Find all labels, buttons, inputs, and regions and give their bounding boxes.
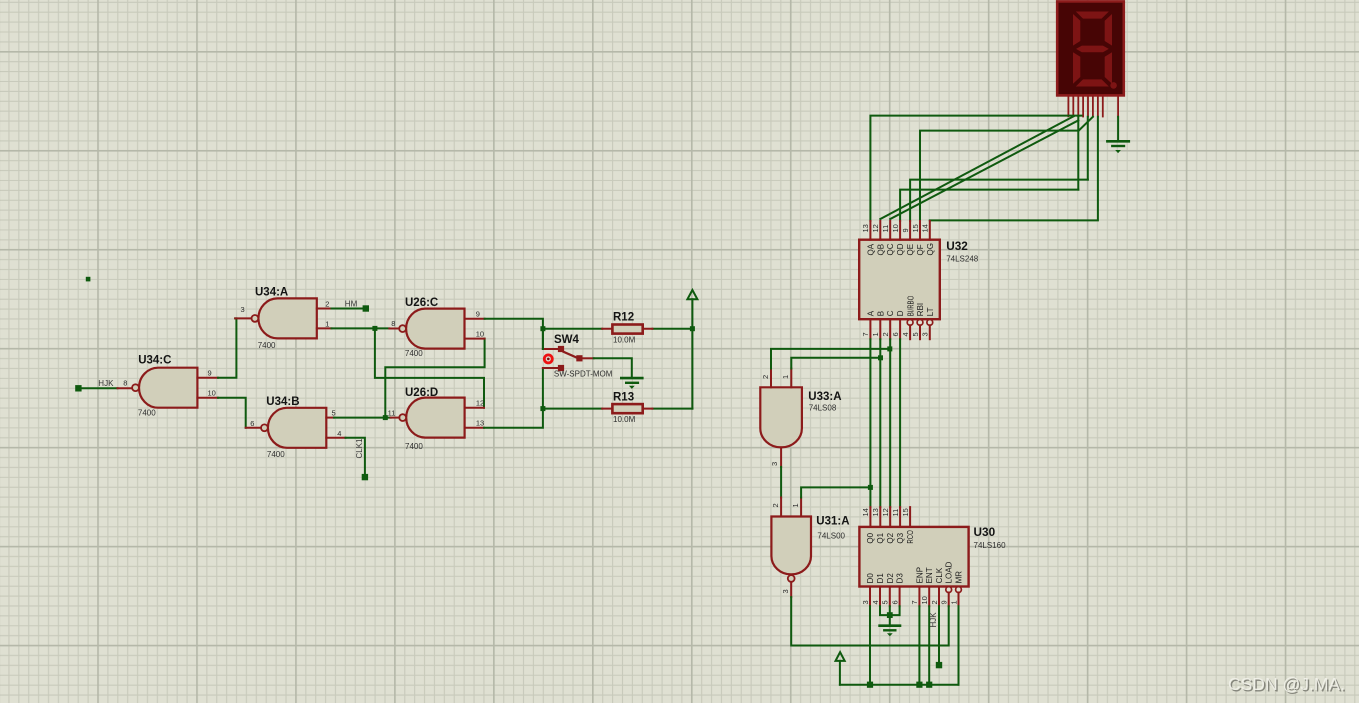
svg-text:Q1: Q1 <box>876 532 885 543</box>
power terminal arrow <box>687 290 697 299</box>
svg-text:10: 10 <box>208 389 216 398</box>
power terminal arrow bottom <box>836 652 845 661</box>
U32 top pin numbers 13 12 11 10 9 15 14 <box>861 224 929 232</box>
svg-text:A: A <box>866 310 875 316</box>
wire SW4 throw B vertical <box>542 368 544 409</box>
svg-text:14: 14 <box>921 224 930 232</box>
svg-text:1: 1 <box>871 332 880 336</box>
terminal HJK <box>75 385 81 391</box>
svg-text:R12: R12 <box>613 312 634 324</box>
wire D1 D2 D3 to ground <box>880 606 900 625</box>
wire U32 B to U30 Q1 <box>879 339 881 507</box>
U31:A labels <box>816 516 849 541</box>
display segment a <box>1076 12 1109 19</box>
svg-text:9: 9 <box>901 228 910 232</box>
svg-text:U34:A: U34:A <box>255 287 288 299</box>
svg-text:3: 3 <box>241 305 245 314</box>
wire U26:D pin13 to R13 node <box>484 409 543 428</box>
svg-text:3: 3 <box>861 600 870 604</box>
svg-text:U30: U30 <box>974 525 996 539</box>
U32 bottom pin numbers 7 1 2 6 4 5 3 <box>861 332 929 336</box>
svg-text:1: 1 <box>781 375 790 379</box>
junction dot <box>868 485 873 490</box>
SW4 actuator red circle <box>544 355 552 363</box>
svg-text:11: 11 <box>388 409 396 418</box>
svg-text:ENT: ENT <box>925 567 934 583</box>
7-segment display DS (body) <box>1057 1 1124 95</box>
svg-text:3: 3 <box>781 589 790 593</box>
svg-text:5: 5 <box>332 409 336 418</box>
IC U30 74LS160 body <box>859 527 968 587</box>
wire U31:A output to LOAD <box>791 597 949 645</box>
wire U34:A pin2 to HM terminal <box>332 308 364 310</box>
wire ENT to power rail <box>928 606 930 685</box>
wire R13 row <box>543 408 693 410</box>
U26:C pin stubs <box>389 319 484 339</box>
svg-text:QC: QC <box>886 243 895 255</box>
IC U32 74LS248 body <box>859 240 940 320</box>
svg-text:6: 6 <box>250 419 254 428</box>
svg-text:10: 10 <box>920 596 929 604</box>
svg-text:7400: 7400 <box>267 450 285 459</box>
wire QC diagonal to segment c column <box>890 120 1078 219</box>
svg-text:Q3: Q3 <box>896 532 905 543</box>
svg-text:6: 6 <box>891 332 900 336</box>
svg-text:QD: QD <box>896 243 905 255</box>
NAND gate U34:C body <box>132 368 197 408</box>
NAND gate U31:A body <box>771 517 811 582</box>
svg-text:2: 2 <box>881 332 890 336</box>
wire U34:B pin5 to U26:D output <box>334 417 391 419</box>
svg-text:15: 15 <box>901 508 910 516</box>
svg-text:12: 12 <box>871 224 880 232</box>
junction dot <box>916 682 922 688</box>
svg-text:B: B <box>876 311 885 316</box>
svg-text:2: 2 <box>325 300 329 309</box>
U30 labels <box>974 525 1007 550</box>
wire U33:A pin2 to U32 C column <box>771 349 890 369</box>
wire U31:A pin1 to Q0 column <box>801 487 870 497</box>
wire HJK terminal to U34:C output <box>81 387 118 389</box>
svg-text:7400: 7400 <box>138 408 156 417</box>
svg-text:CSDN @J.MA.: CSDN @J.MA. <box>1228 674 1345 694</box>
svg-text:5: 5 <box>881 600 890 604</box>
svg-text:74LS248: 74LS248 <box>946 254 979 263</box>
svg-text:74LS160: 74LS160 <box>974 541 1007 550</box>
svg-text:2: 2 <box>761 375 770 379</box>
svg-text:D1: D1 <box>876 573 885 584</box>
svg-text:9: 9 <box>208 369 212 378</box>
junction dot R12 node <box>540 326 545 331</box>
svg-text:LT: LT <box>926 307 935 316</box>
svg-text:13: 13 <box>476 419 484 428</box>
wire U34:B pin4 to CLK1 terminal <box>346 438 365 474</box>
NAND gate U34:B body <box>261 408 326 448</box>
svg-text:7400: 7400 <box>405 349 423 358</box>
svg-text:1: 1 <box>949 600 958 604</box>
wire SW4 pole to ground <box>594 358 632 377</box>
svg-text:HJK: HJK <box>98 379 114 388</box>
wire diagonal from display pin f <box>1079 117 1093 131</box>
junction dot power node <box>690 326 695 331</box>
wire vertical display pin3 column <box>1077 116 1079 189</box>
gate pin numbers <box>123 300 484 438</box>
lone marker dot <box>86 277 91 282</box>
svg-text:D0: D0 <box>866 573 875 584</box>
svg-text:QB: QB <box>876 244 885 256</box>
labels left section <box>98 287 635 459</box>
wire QB diagonal to segment b <box>880 116 1073 219</box>
svg-text:14: 14 <box>861 508 870 516</box>
svg-text:74LS00: 74LS00 <box>817 532 845 541</box>
junction dot <box>878 355 883 360</box>
svg-text:6: 6 <box>890 600 899 604</box>
svg-text:13: 13 <box>861 224 870 232</box>
svg-text:Q2: Q2 <box>886 532 895 543</box>
display segment e <box>1073 52 1080 84</box>
svg-text:U34:B: U34:B <box>266 396 299 408</box>
svg-text:74LS08: 74LS08 <box>809 403 837 412</box>
svg-text:10: 10 <box>891 224 900 232</box>
AND gate U33:A body <box>760 387 802 447</box>
NAND gate U26:C body <box>399 309 464 349</box>
resistor R13 <box>602 404 652 413</box>
display segment b <box>1105 14 1112 46</box>
ground under SW4 <box>621 378 642 388</box>
junction dot <box>926 682 932 688</box>
svg-text:9: 9 <box>940 600 949 604</box>
wire U26:C pin10 zigzag to pin5 row <box>385 339 484 418</box>
svg-text:ENP: ENP <box>915 567 924 583</box>
svg-text:8: 8 <box>123 379 127 388</box>
svg-text:U26:D: U26:D <box>405 387 438 399</box>
svg-text:4: 4 <box>901 332 910 336</box>
wire from junction down to U26:D pin12 <box>375 328 484 407</box>
switch SW4 <box>543 346 594 371</box>
svg-text:QF: QF <box>916 244 925 255</box>
terminal CLK1 <box>362 474 368 480</box>
svg-text:U33:A: U33:A <box>808 391 841 403</box>
svg-text:SW4: SW4 <box>554 334 580 346</box>
svg-text:QE: QE <box>906 244 915 256</box>
wire U33:A output to U31:A pin2 <box>780 467 782 498</box>
svg-text:1: 1 <box>791 503 800 507</box>
U33:A pin stubs <box>771 369 791 467</box>
wire U32 A to U30 Q0 <box>869 339 871 507</box>
NAND gate U34:A body <box>252 298 317 338</box>
U30 bottom pin stubs <box>870 587 939 607</box>
U32 pin names A B C D BI/RBO RBI LT <box>866 296 935 317</box>
U30 top pin stubs <box>870 507 910 527</box>
wire QF to display (via y130.6) <box>920 131 1078 221</box>
U32 labels <box>946 239 979 263</box>
junction dot <box>887 346 892 351</box>
svg-text:QG: QG <box>926 243 935 255</box>
wire QA to segment a <box>870 116 1081 221</box>
wire power rail vertical <box>691 299 693 408</box>
wire U33:A pin1 to U32 B column <box>791 358 880 369</box>
svg-text:QA: QA <box>866 243 875 255</box>
svg-text:3: 3 <box>921 332 930 336</box>
svg-text:10.0M: 10.0M <box>613 336 636 345</box>
junction dot R13 node <box>540 406 545 411</box>
U34:A pin stubs <box>235 309 331 329</box>
wire power arrow stem <box>839 661 841 685</box>
display segment c <box>1105 52 1112 84</box>
svg-text:D3: D3 <box>896 573 905 584</box>
svg-text:12: 12 <box>476 399 484 408</box>
svg-text:4: 4 <box>337 429 341 438</box>
svg-text:1: 1 <box>325 320 329 329</box>
U31:A pin stubs <box>781 498 801 598</box>
U30 pin names bottom <box>866 561 964 583</box>
svg-text:13: 13 <box>871 508 880 516</box>
U32 bottom inverted pins BI/RBO RBI LT <box>907 320 933 340</box>
wire vertical display pin e column <box>1087 117 1089 180</box>
U30 pin names top Q0-Q3 RCO <box>866 530 915 544</box>
ground under D pins <box>880 626 900 636</box>
svg-text:HJK: HJK <box>929 612 938 628</box>
gate rotated pin numbers <box>761 375 800 594</box>
svg-text:12: 12 <box>881 508 890 516</box>
NAND gate U26:D body <box>399 398 464 438</box>
svg-text:10.0M: 10.0M <box>613 415 636 424</box>
wire U32 D to U30 Q3 <box>899 339 901 507</box>
svg-text:BI/RBO: BI/RBO <box>906 296 915 317</box>
svg-text:Q0: Q0 <box>866 532 875 543</box>
U30 bottom pin numbers <box>861 596 959 604</box>
display pins <box>1068 95 1118 116</box>
U34:C pin stubs <box>118 378 219 398</box>
wire MR to power rail <box>958 606 960 685</box>
wire D0 to power rail <box>869 606 871 685</box>
svg-text:R13: R13 <box>613 392 634 404</box>
svg-text:10: 10 <box>476 330 484 339</box>
U34:B pin stubs <box>246 418 346 438</box>
ground under display <box>1107 141 1128 152</box>
U32 bottom pin stubs A B C D <box>870 319 900 339</box>
U30 top pin numbers 14 13 12 11 15 <box>861 508 910 516</box>
svg-text:MR: MR <box>955 571 964 584</box>
svg-text:D: D <box>896 310 905 316</box>
svg-text:D2: D2 <box>886 573 895 584</box>
svg-text:7: 7 <box>910 600 919 604</box>
wire U34:C pin10 to U34:B output <box>218 398 246 428</box>
wire SW4 throw A vertical from R12 node <box>542 329 544 349</box>
svg-text:2: 2 <box>930 600 939 604</box>
svg-text:5: 5 <box>911 332 920 336</box>
junction dot <box>372 326 377 331</box>
U32 pin names QA-QG <box>866 243 934 255</box>
svg-text:LOAD: LOAD <box>945 561 954 583</box>
svg-text:U31:A: U31:A <box>816 516 849 528</box>
wire U34:A pin1 to U26:C output <box>332 327 390 329</box>
wire CLK to HJK terminal <box>938 606 940 662</box>
svg-text:CLK1: CLK1 <box>355 438 364 459</box>
svg-text:RCO: RCO <box>906 530 915 544</box>
U30 inverted pins LOAD MR <box>946 587 962 607</box>
display segment f <box>1073 14 1080 46</box>
display decimal point <box>1110 82 1117 89</box>
junction dot <box>383 415 388 420</box>
svg-text:11: 11 <box>881 225 890 233</box>
wire QE to display pin e <box>910 180 1088 221</box>
terminal HM <box>363 305 369 311</box>
resistor R12 <box>602 325 652 334</box>
U26:D pin stubs <box>391 408 484 428</box>
wire bottom power rail <box>840 684 959 686</box>
junction dot <box>887 612 893 618</box>
svg-text:C: C <box>886 310 895 316</box>
display segment d <box>1076 79 1109 86</box>
wire U26:C pin9 to R12 node <box>485 319 543 349</box>
junction dot <box>867 682 873 688</box>
U32 top pin stubs <box>870 221 929 240</box>
svg-text:CLK: CLK <box>935 567 944 583</box>
svg-text:9: 9 <box>476 310 480 319</box>
wire R12 row <box>543 328 693 330</box>
svg-text:SW-SPDT-MOM: SW-SPDT-MOM <box>554 370 613 379</box>
display segment g <box>1076 46 1109 53</box>
wire QG to display pin g <box>930 117 1098 221</box>
svg-text:U26:C: U26:C <box>405 297 438 309</box>
svg-text:2: 2 <box>771 503 780 507</box>
wire display common to ground <box>1117 117 1119 141</box>
svg-text:15: 15 <box>911 224 920 232</box>
wire QD to display column <box>900 190 1078 221</box>
svg-text:U34:C: U34:C <box>138 355 171 367</box>
wire ENP to power rail <box>918 606 920 685</box>
svg-text:3: 3 <box>770 462 779 466</box>
wire U32 C to U30 Q2 <box>889 339 891 507</box>
svg-text:RBI: RBI <box>916 303 925 316</box>
svg-text:7400: 7400 <box>258 341 276 350</box>
svg-text:8: 8 <box>391 319 395 328</box>
terminal HJK at CLK <box>936 662 942 668</box>
svg-text:4: 4 <box>871 600 880 604</box>
wire U34:C pin9 up to U34:A output <box>218 318 236 377</box>
svg-text:HM: HM <box>345 299 358 308</box>
U33:A labels <box>808 391 841 412</box>
svg-text:11: 11 <box>891 509 900 517</box>
svg-text:U32: U32 <box>946 239 968 253</box>
svg-text:7400: 7400 <box>405 442 423 451</box>
svg-text:7: 7 <box>861 332 870 336</box>
